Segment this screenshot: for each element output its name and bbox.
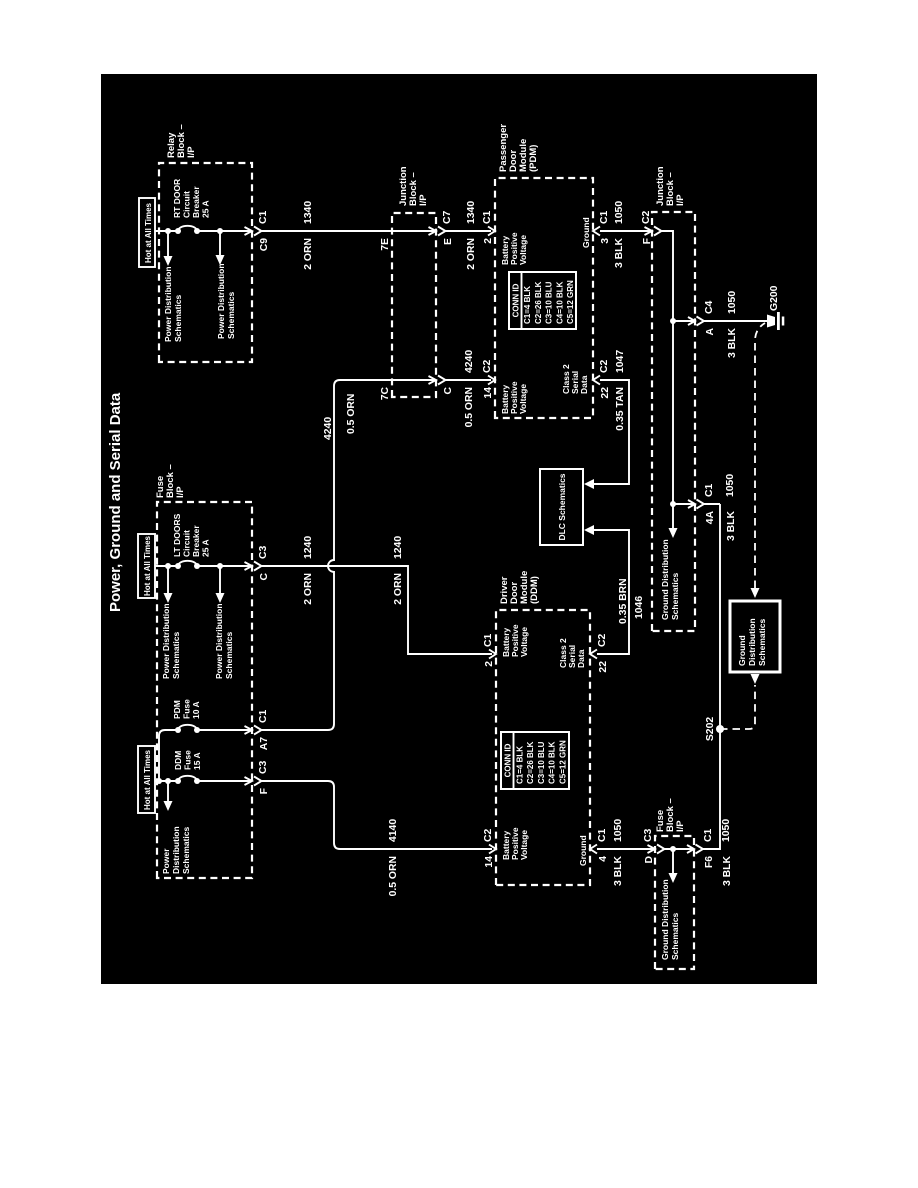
wire: 0.35 TAN 1047 from PDM pin 22 to DLC xyxy=(584,380,629,489)
node: tee below LT DOORS breaker xyxy=(217,563,223,569)
svg-text:C5=12 GRN: C5=12 GRN xyxy=(566,280,575,324)
connector F6/C1 at fuse block bottom edge xyxy=(687,845,703,854)
connector A/C4 at junction block bottom edge xyxy=(688,317,704,326)
junction block I/P (upper) label xyxy=(398,166,429,206)
svg-text:Hot at All Times: Hot at All Times xyxy=(144,202,153,263)
ground distribution schematics box xyxy=(730,601,780,672)
svg-text:Circuit: Circuit xyxy=(182,191,192,218)
pin 14/C2 connector at DDM top edge xyxy=(489,845,496,854)
svg-text:LT DOORS: LT DOORS xyxy=(172,513,182,557)
pin label C xyxy=(443,387,454,395)
label: 0.5 ORN / 4140 xyxy=(388,819,399,897)
svg-text:Ground Distribution: Ground Distribution xyxy=(660,879,670,960)
dashed wire: ground distribution box to G200 xyxy=(755,323,765,588)
fuse block I/P (top left) dashed box xyxy=(157,502,252,878)
svg-text:I/P: I/P xyxy=(175,486,186,498)
svg-text:0.35 BRN: 0.35 BRN xyxy=(618,578,629,624)
svg-text:CONN ID: CONN ID xyxy=(512,283,521,317)
pin label 22 / C2 (PDM class 2) xyxy=(599,359,611,398)
svg-text:C2: C2 xyxy=(599,359,610,373)
connector F/C3 at fuse block edge xyxy=(245,777,262,786)
svg-text:Power Distribution: Power Distribution xyxy=(216,263,226,339)
label: Power Distribution Schematics (lower) xyxy=(214,603,234,679)
wire: 0.5 ORN 4240 from A7/C1 across with hop over 1240 to junction block 7C xyxy=(262,380,437,730)
svg-text:C7: C7 xyxy=(442,210,453,224)
svg-text:C2=26 BLK: C2=26 BLK xyxy=(526,741,535,784)
svg-text:0.5 ORN: 0.5 ORN xyxy=(388,856,399,896)
svg-text:C1: C1 xyxy=(703,828,714,842)
hot at all times label (LT DOORS feed) xyxy=(138,534,155,598)
label: 3 BLK / 1050 (4A wire) xyxy=(725,474,737,541)
pin label F / C3 xyxy=(258,760,270,794)
pin 3/C1 connector at PDM bottom edge xyxy=(593,227,600,236)
svg-text:4240: 4240 xyxy=(464,350,475,373)
pin label 2 / C1 (PDM battery) xyxy=(482,210,494,243)
label: Ground (DDM pin 4) xyxy=(578,835,588,866)
label: RT DOOR Circuit Breaker 25 A xyxy=(172,179,211,218)
pin label D / C3 xyxy=(643,828,655,863)
wire: LT DOORS feed drop xyxy=(155,565,252,567)
node: junction at 4A/C1 branch xyxy=(670,501,676,507)
wire: 0.35 BRN 1046 from DDM pin 22 to DLC xyxy=(584,525,629,654)
label: Class 2 Serial Data (PDM pin 22) xyxy=(561,364,589,394)
svg-text:4A: 4A xyxy=(705,511,716,525)
svg-text:I/P: I/P xyxy=(186,146,197,158)
svg-text:Schematics: Schematics xyxy=(173,294,183,342)
splice S202 xyxy=(705,717,724,741)
wire: DDM fuse feed drop xyxy=(155,780,252,782)
arrow into ground distribution box (right side) xyxy=(751,588,760,598)
label: 2 ORN / 1240 (lower) xyxy=(393,536,404,605)
junction block I/P (lower) dashed box xyxy=(652,212,695,631)
svg-text:D: D xyxy=(644,856,655,864)
svg-text:C: C xyxy=(443,387,454,395)
svg-text:Power: Power xyxy=(161,848,171,874)
svg-text:RT DOOR: RT DOOR xyxy=(172,179,182,218)
svg-text:Hot at All Times: Hot at All Times xyxy=(143,749,152,810)
svg-text:25 A: 25 A xyxy=(201,200,211,218)
svg-text:Schematics: Schematics xyxy=(171,631,181,679)
wire: 0.5 ORN 4140 from F/C3 with jog to DDM pin 14 xyxy=(262,781,493,849)
svg-text:3 BLK: 3 BLK xyxy=(727,328,738,359)
wire: 3 BLK 1050 from PDM pin 3 to junction block F/C2 xyxy=(600,230,652,232)
wire: RT DOOR feed drop xyxy=(155,230,252,232)
wire: branch arrow to Power Distribution Schematics (upper) xyxy=(164,566,173,603)
label: 2 ORN / 1340 (upper) xyxy=(303,201,314,270)
connector 4A/C1 at junction block bottom edge xyxy=(688,500,704,509)
svg-text:Fuse: Fuse xyxy=(182,699,192,719)
terminal label 7C xyxy=(380,387,391,401)
svg-text:0.5 ORN: 0.5 ORN xyxy=(346,394,357,434)
svg-text:Ground: Ground xyxy=(578,835,588,866)
svg-text:2: 2 xyxy=(483,238,494,244)
svg-text:A: A xyxy=(705,328,716,336)
svg-text:C3: C3 xyxy=(258,545,269,559)
fuse block I/P (lower) dashed box xyxy=(655,836,694,969)
svg-text:G200: G200 xyxy=(769,285,780,311)
svg-text:1050: 1050 xyxy=(727,291,738,314)
svg-text:1046: 1046 xyxy=(634,596,645,619)
connector E/C7 at junction block lower edge xyxy=(429,227,446,236)
svg-text:1240: 1240 xyxy=(393,536,404,559)
svg-text:2 ORN: 2 ORN xyxy=(466,238,477,270)
pin label C9 / C1 xyxy=(258,210,270,251)
svg-text:C3: C3 xyxy=(258,760,269,774)
svg-text:22: 22 xyxy=(598,661,609,673)
label: 3 BLK / 1050 (bus) xyxy=(721,819,733,886)
terminal label 7E xyxy=(380,238,391,251)
pin 2/C1 connector at DDM top edge xyxy=(489,650,496,659)
svg-text:3 BLK: 3 BLK xyxy=(722,856,733,887)
svg-text:A7: A7 xyxy=(259,737,270,751)
svg-text:7C: 7C xyxy=(380,387,391,401)
svg-text:S202: S202 xyxy=(705,717,716,741)
svg-text:7E: 7E xyxy=(380,238,391,251)
svg-text:0.35 TAN: 0.35 TAN xyxy=(615,387,626,431)
wire: 3 BLK 1050 from DDM pin 4 to fuse block D/C3 xyxy=(597,848,655,850)
connector A7/C1 at fuse block edge xyxy=(245,726,262,735)
wire: branch arrow to Power Distribution Schematics (lower) xyxy=(216,231,225,265)
svg-text:2 ORN: 2 ORN xyxy=(303,573,314,605)
svg-text:1240: 1240 xyxy=(303,536,314,559)
wire: 0.5 ORN 4240 from junction block C to PDM pin 14 xyxy=(446,379,492,381)
connector C at junction block lower edge xyxy=(429,376,446,385)
svg-text:C1: C1 xyxy=(258,709,269,723)
svg-text:1340: 1340 xyxy=(303,201,314,224)
svg-text:DDM: DDM xyxy=(173,751,183,770)
title: Power, Ground and Serial Data xyxy=(107,392,124,612)
label: Power Distribution Schematics (DDM) xyxy=(161,826,191,874)
svg-text:1047: 1047 xyxy=(615,350,626,373)
svg-text:Breaker: Breaker xyxy=(191,525,201,557)
arrow to Ground Distribution Schematics (junction block) xyxy=(669,528,678,538)
svg-text:3 BLK: 3 BLK xyxy=(613,856,624,887)
relay block I/P label xyxy=(166,124,197,158)
svg-text:2 ORN: 2 ORN xyxy=(393,573,404,605)
connector C/C3 at fuse block edge xyxy=(245,562,262,571)
svg-text:F6: F6 xyxy=(704,856,715,868)
label: 3 BLK / 1050 (PDM ground) xyxy=(614,201,625,268)
svg-text:10 A: 10 A xyxy=(191,701,201,719)
svg-text:Schematics: Schematics xyxy=(224,631,234,679)
label: Battery Positive Voltage (DDM pin 2) xyxy=(501,624,529,657)
pin 22/C2 connector at DDM bottom edge xyxy=(590,650,597,659)
pin 2/C1 connector at PDM top edge xyxy=(488,227,495,236)
svg-text:F: F xyxy=(642,238,653,244)
passenger door module (PDM) label xyxy=(498,124,539,172)
svg-text:C2: C2 xyxy=(482,359,493,373)
svg-text:3 BLK: 3 BLK xyxy=(726,511,737,542)
connector D/C3 at fuse block top edge xyxy=(648,845,665,854)
label: 0.35 BRN above run xyxy=(618,578,629,624)
svg-text:2: 2 xyxy=(484,661,495,667)
svg-text:C3: C3 xyxy=(643,828,654,842)
label: 4240 above horizontal run xyxy=(323,417,334,440)
svg-text:1050: 1050 xyxy=(613,819,624,842)
svg-text:E: E xyxy=(443,238,454,245)
svg-text:Distribution: Distribution xyxy=(171,826,181,874)
svg-text:Schematics: Schematics xyxy=(670,572,680,620)
svg-text:(PDM): (PDM) xyxy=(528,145,539,172)
node: tee above RT DOOR breaker xyxy=(165,228,171,234)
junction block I/P (upper) dashed box xyxy=(392,213,436,397)
svg-text:Data: Data xyxy=(579,375,589,394)
svg-text:C4: C4 xyxy=(704,300,715,314)
pin 4/C1 connector at DDM bottom edge xyxy=(590,845,597,854)
svg-text:C9: C9 xyxy=(259,238,270,252)
svg-text:Voltage: Voltage xyxy=(519,830,529,860)
svg-text:Data: Data xyxy=(576,649,586,668)
svg-text:Schematics: Schematics xyxy=(757,618,767,666)
label: Ground Distribution Schematics (junction block) xyxy=(660,539,680,620)
label: 3 BLK / 1050 (DDM ground) xyxy=(613,819,624,886)
label: G200 xyxy=(769,285,780,311)
label: 0.5 ORN below horizontal run xyxy=(346,394,357,434)
DLC schematics box xyxy=(540,469,583,545)
svg-text:PDM: PDM xyxy=(172,700,182,719)
svg-text:C4=10 BLK: C4=10 BLK xyxy=(555,281,564,324)
circuit breaker: LT DOORS 25 A xyxy=(175,561,200,569)
CONN ID table (PDM) xyxy=(509,272,576,329)
svg-text:Voltage: Voltage xyxy=(518,384,528,414)
fuse: PDM Fuse 10 A xyxy=(175,725,252,733)
svg-text:1050: 1050 xyxy=(614,201,625,224)
label: 2 ORN / 1240 (upper) xyxy=(303,536,314,605)
dashed wire: S202 to ground distribution box xyxy=(720,685,755,729)
wire: ground bus inside junction block xyxy=(662,231,674,529)
pin 14/C2 connector at PDM top edge xyxy=(488,376,495,385)
svg-text:CONN ID: CONN ID xyxy=(504,743,513,777)
svg-text:Circuit: Circuit xyxy=(182,530,192,557)
svg-text:C1: C1 xyxy=(482,210,493,224)
svg-text:22: 22 xyxy=(600,387,611,399)
svg-text:C1: C1 xyxy=(704,483,715,497)
svg-text:Fuse: Fuse xyxy=(183,750,193,770)
relay block I/P dashed box xyxy=(159,163,252,362)
svg-text:Distribution: Distribution xyxy=(747,618,757,666)
wire: 2 ORN 1340 from relay C1 to junction block 7E xyxy=(262,230,437,232)
svg-text:C2=26 BLK: C2=26 BLK xyxy=(534,281,543,324)
arrow toward S202 (left of ground distribution box) xyxy=(751,674,760,684)
svg-text:Schematics: Schematics xyxy=(181,826,191,874)
svg-text:DLC Schematics: DLC Schematics xyxy=(557,473,567,540)
node: tee below RT DOOR breaker xyxy=(217,228,223,234)
label: Ground Distribution Schematics (lower fuse block) xyxy=(660,879,680,960)
svg-text:Voltage: Voltage xyxy=(519,627,529,657)
ground symbol G200 xyxy=(767,312,784,330)
fuse: DDM Fuse 15 A xyxy=(175,776,200,784)
svg-text:Power, Ground and Serial Data: Power, Ground and Serial Data xyxy=(107,392,124,612)
wire: 2 ORN 1340 from E/C7 to PDM pin 2 xyxy=(446,230,492,232)
svg-text:C: C xyxy=(259,573,270,581)
svg-text:Ground: Ground xyxy=(581,217,591,248)
svg-text:I/P: I/P xyxy=(675,820,686,832)
svg-text:C4=10 BLK: C4=10 BLK xyxy=(548,741,557,784)
pin label 2 / C1 (DDM battery) xyxy=(483,633,495,666)
svg-text:C3=10 BLU: C3=10 BLU xyxy=(545,281,554,324)
CONN ID table (DDM) xyxy=(501,732,569,789)
svg-text:C1: C1 xyxy=(597,828,608,842)
svg-text:Schematics: Schematics xyxy=(670,912,680,960)
pin label 3 / C1 (PDM ground) xyxy=(599,210,611,243)
svg-text:C2: C2 xyxy=(641,210,652,224)
svg-text:I/P: I/P xyxy=(675,194,686,206)
svg-text:14: 14 xyxy=(483,387,494,399)
hot at all times label (DDM fuse feed) xyxy=(138,746,155,813)
label: LT DOORS Circuit Breaker 25 A xyxy=(172,513,211,557)
wire: branch arrow to Power Distribution Schematics (lower) xyxy=(216,566,225,603)
label: Battery Positive Voltage (PDM pin 2) xyxy=(500,232,528,265)
label: 1046 below run xyxy=(634,596,645,619)
label: Power Distribution Schematics (lower) xyxy=(216,263,236,339)
pin label F / C2 xyxy=(641,210,653,244)
svg-text:C1: C1 xyxy=(599,210,610,224)
label: Battery Positive Voltage (PDM pin 14) xyxy=(500,381,528,414)
svg-text:15 A: 15 A xyxy=(192,752,202,770)
svg-text:C1: C1 xyxy=(258,210,269,224)
node: junction at A/C4 branch xyxy=(670,318,676,324)
fuse block I/P (lower) label xyxy=(655,798,686,832)
svg-text:C2: C2 xyxy=(597,633,608,647)
svg-text:Ground: Ground xyxy=(737,635,747,666)
fuse block I/P label xyxy=(155,464,186,498)
pin label 14 / C2 (DDM battery) xyxy=(483,828,495,867)
svg-text:1340: 1340 xyxy=(466,201,477,224)
wire: branch to 4A/C1 xyxy=(673,503,720,505)
pin 22/C2 connector at PDM bottom edge xyxy=(593,376,600,385)
driver door module (DDM) label xyxy=(499,571,540,604)
label: Ground (PDM pin 3) xyxy=(581,217,591,248)
svg-text:F: F xyxy=(259,788,270,794)
label: DDM Fuse 15 A xyxy=(173,750,202,770)
circuit breaker: RT DOOR 25 A xyxy=(175,226,200,234)
pin label E / C7 xyxy=(442,210,454,244)
label: 3 BLK / 1050 (G200 wire) xyxy=(727,291,738,358)
pin label 22 / C2 (DDM class 2) xyxy=(597,633,609,672)
wire: branch to A/C4 and G200 xyxy=(673,320,768,322)
svg-text:I/P: I/P xyxy=(418,194,429,206)
svg-text:Power Distribution: Power Distribution xyxy=(163,266,173,342)
svg-text:0.5 ORN: 0.5 ORN xyxy=(464,387,475,427)
node: tee to PDM fuse link xyxy=(156,778,162,784)
svg-text:25 A: 25 A xyxy=(201,539,211,557)
label: PDM Fuse 10 A xyxy=(172,699,201,719)
svg-text:(DDM): (DDM) xyxy=(529,576,540,604)
wire: through lower fuse block xyxy=(665,848,695,850)
svg-text:4240: 4240 xyxy=(323,417,334,440)
label: Class 2 Serial Data (DDM pin 22) xyxy=(558,638,586,668)
wire: ground bus 3 BLK 1050 from F6/C1 to 4A/C1 xyxy=(703,504,720,849)
label: Battery Positive Voltage (DDM pin 14) xyxy=(501,827,529,860)
svg-text:Schematics: Schematics xyxy=(226,291,236,339)
hot at all times label (RT DOOR feed) xyxy=(139,198,155,267)
wire: branch arrow to Power Distribution Schematics (DDM) xyxy=(164,778,173,811)
pin label F6 / C1 xyxy=(703,828,715,868)
svg-text:Breaker: Breaker xyxy=(191,186,201,218)
node: junction in lower fuse block xyxy=(670,846,676,852)
pin label 14 / C2 (PDM battery) xyxy=(482,359,494,398)
wire: 2 ORN 1240 from fuse block C/C3 down with jog to DDM pin 2 xyxy=(262,566,493,654)
node: tee above LT DOORS breaker xyxy=(165,563,171,569)
svg-text:Power Distribution: Power Distribution xyxy=(214,603,224,679)
junction block I/P (lower) label xyxy=(655,166,686,206)
svg-text:C1=4 BLK: C1=4 BLK xyxy=(523,286,532,324)
connector F/C2 at junction block top edge xyxy=(645,227,662,236)
pin label 4A / C1 xyxy=(704,483,716,524)
svg-text:2 ORN: 2 ORN xyxy=(303,238,314,270)
svg-text:14: 14 xyxy=(484,856,495,868)
svg-text:C2: C2 xyxy=(483,828,494,842)
passenger door module (PDM) dashed box xyxy=(495,178,593,418)
pin label C / C3 xyxy=(258,545,270,580)
svg-text:Voltage: Voltage xyxy=(518,235,528,265)
svg-text:1050: 1050 xyxy=(725,474,736,497)
wire: link to PDM fuse xyxy=(159,730,178,781)
svg-text:1050: 1050 xyxy=(721,819,732,842)
pin label A / C4 xyxy=(704,300,716,335)
svg-text:Ground Distribution: Ground Distribution xyxy=(660,539,670,620)
label: 0.5 ORN / 4240 (below junction block) xyxy=(464,350,475,428)
label: 0.35 TAN / 1047 xyxy=(615,350,626,431)
svg-text:4140: 4140 xyxy=(388,819,399,842)
svg-text:4: 4 xyxy=(598,856,609,862)
pin label A7 / C1 xyxy=(258,709,270,750)
svg-text:C1: C1 xyxy=(483,633,494,647)
arrow to Ground Distribution Schematics (lower fuse block) xyxy=(669,849,678,883)
driver door module (DDM) dashed box xyxy=(496,610,590,885)
wire: branch arrow to Power Distribution Schematics (upper) xyxy=(164,231,173,266)
label: 2 ORN / 1340 (below junction block) xyxy=(466,201,477,270)
svg-text:C5=12 GRN: C5=12 GRN xyxy=(559,740,568,784)
label: Power Distribution Schematics (upper) xyxy=(163,266,183,342)
pin label 4 / C1 (DDM ground) xyxy=(597,828,609,861)
connector C9/C1 at relay block edge xyxy=(245,227,262,236)
svg-text:3 BLK: 3 BLK xyxy=(614,238,625,269)
svg-text:Hot at All Times: Hot at All Times xyxy=(143,535,152,596)
svg-text:C1=4 BLK: C1=4 BLK xyxy=(515,746,524,784)
svg-text:Power Distribution: Power Distribution xyxy=(161,603,171,679)
svg-text:3: 3 xyxy=(600,238,611,244)
svg-text:C3=10 BLU: C3=10 BLU xyxy=(537,741,546,784)
label: Power Distribution Schematics (upper) xyxy=(161,603,181,679)
